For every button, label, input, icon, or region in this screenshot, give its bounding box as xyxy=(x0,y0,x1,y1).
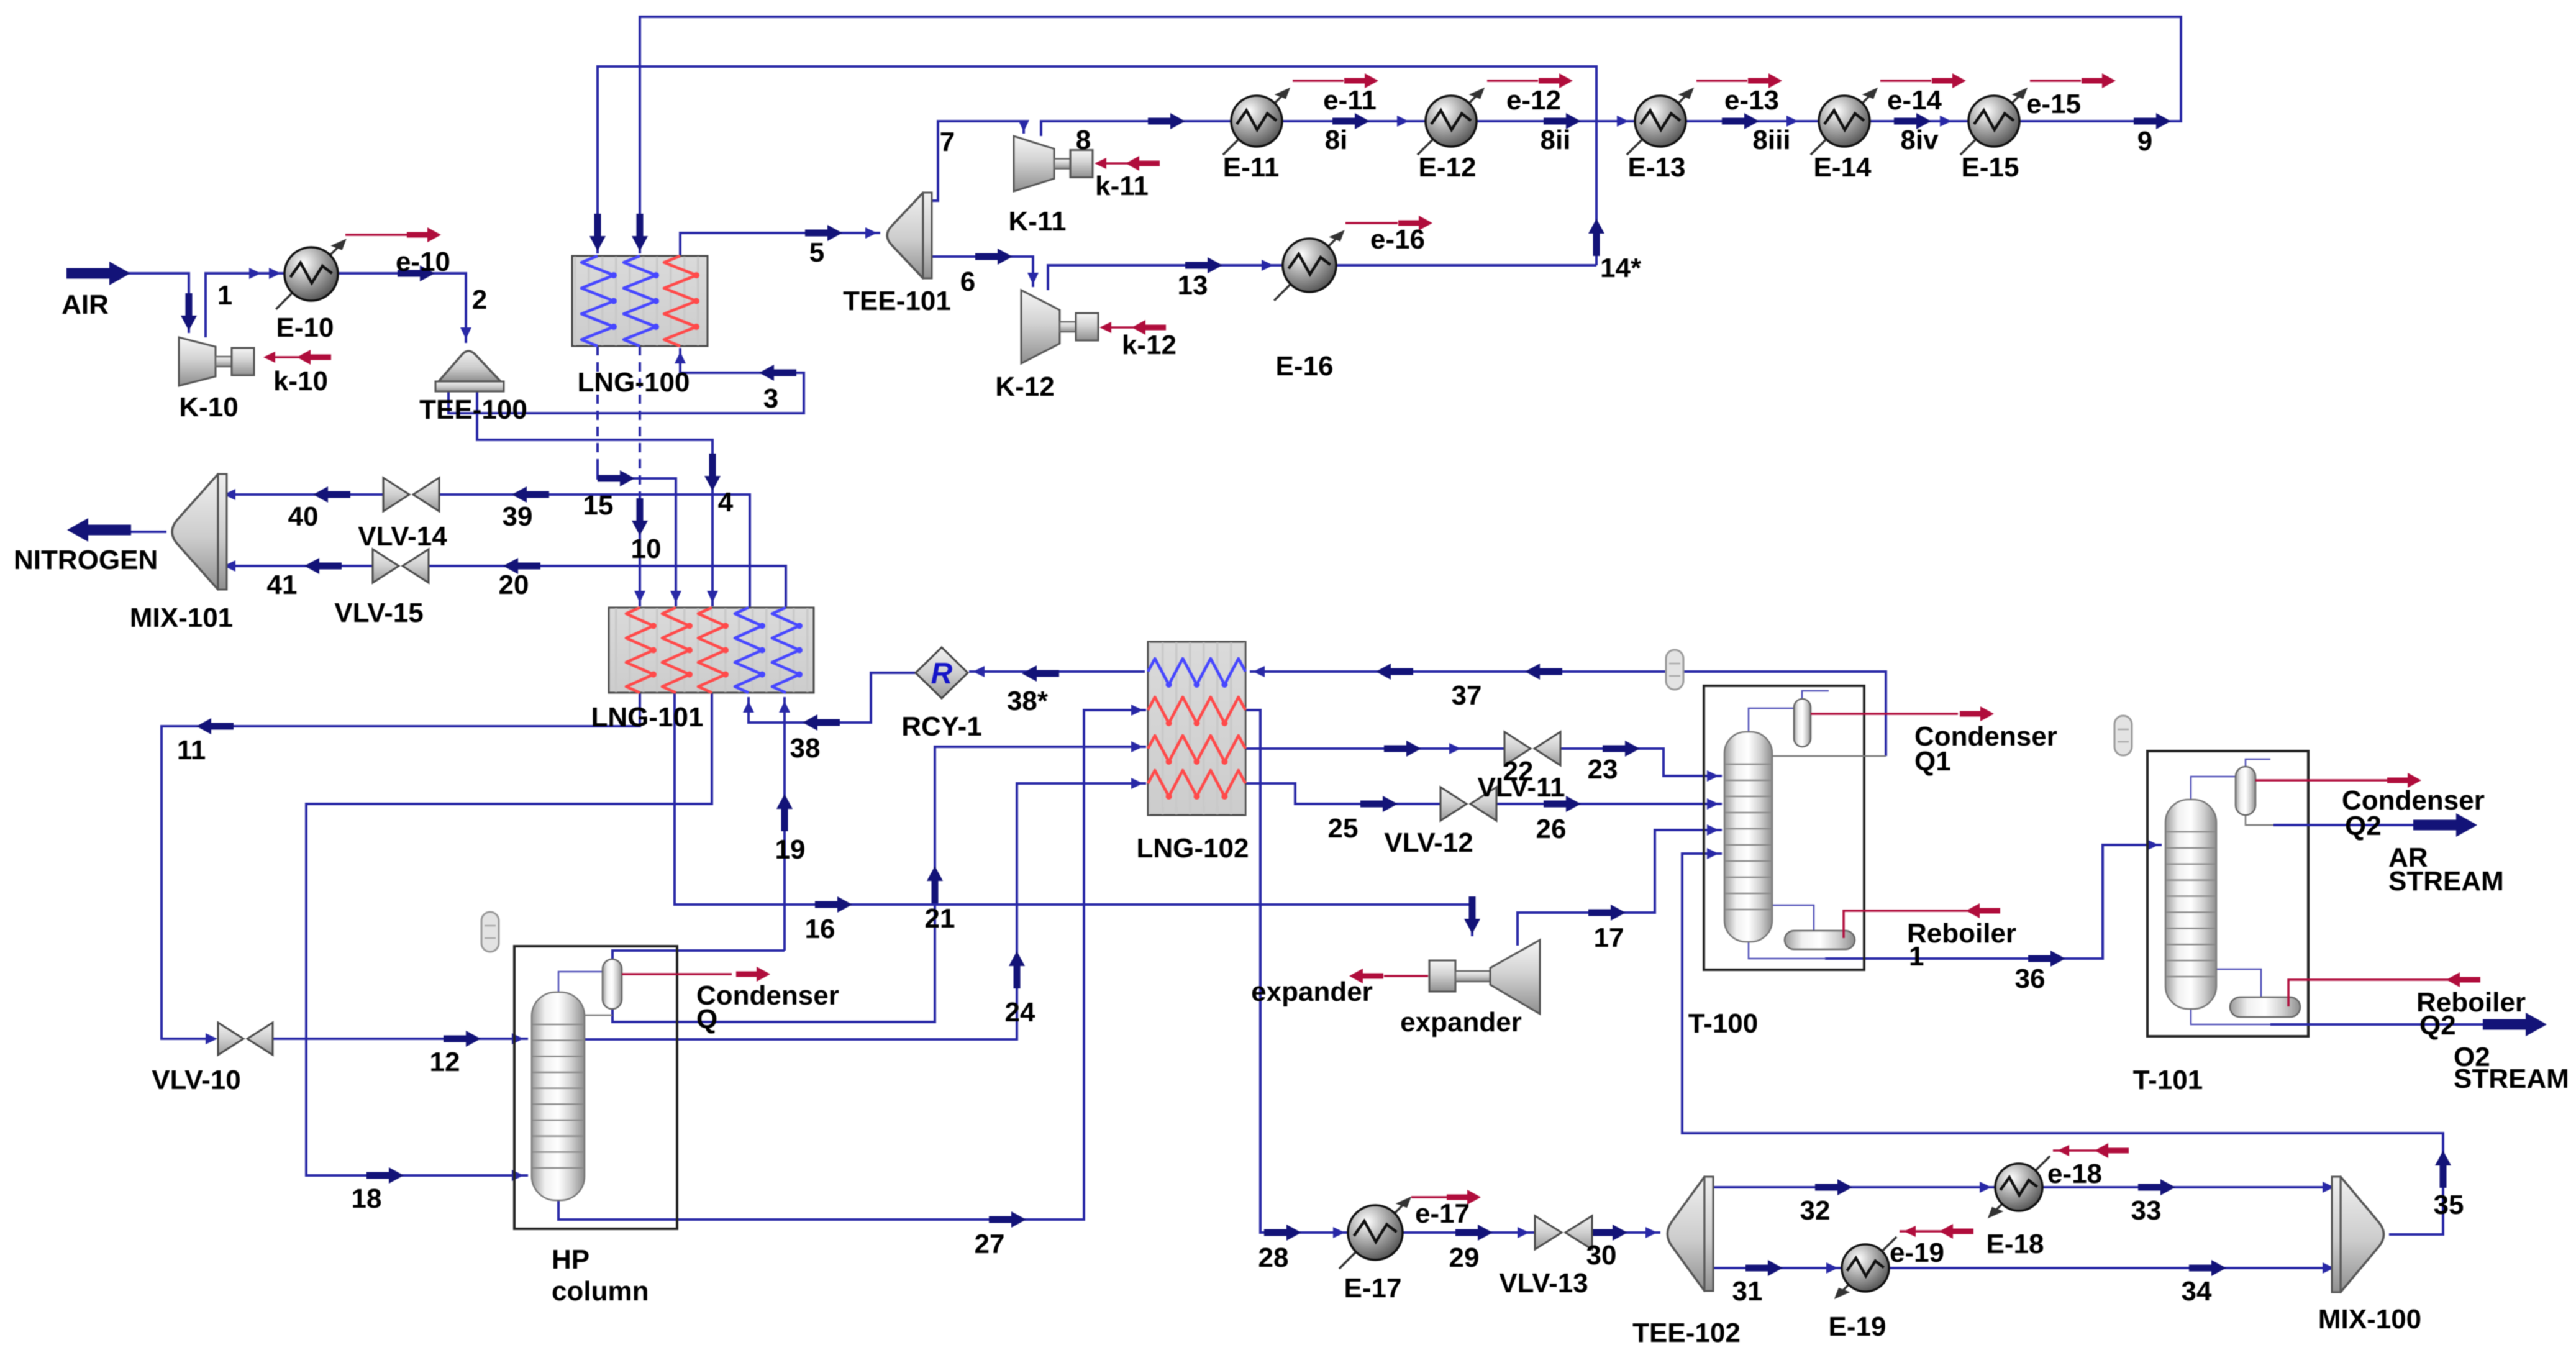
svg-text:28: 28 xyxy=(1258,1243,1289,1273)
heat exchanger E-17 xyxy=(1339,1192,1415,1269)
svg-text:VLV-10: VLV-10 xyxy=(152,1065,240,1095)
fat arrow stream 30 xyxy=(1590,1225,1627,1241)
svg-text:1: 1 xyxy=(217,280,232,311)
svg-text:expander: expander xyxy=(1400,1007,1522,1038)
wire stream 13 K-12 to E-16 xyxy=(1048,265,1283,290)
svg-text:Q2: Q2 xyxy=(2419,1010,2456,1041)
fat arrow stream 5 xyxy=(805,225,842,241)
svg-text:6: 6 xyxy=(960,267,975,297)
svg-text:21: 21 xyxy=(925,903,955,934)
valve VLV-12 xyxy=(1440,787,1496,821)
fat arrow stream 2 xyxy=(398,265,435,281)
wire stream 12 VLV-10 to HP column xyxy=(273,1038,528,1040)
wire HP condenser inlet xyxy=(558,972,612,992)
svg-text:Condenser: Condenser xyxy=(696,980,839,1011)
svg-text:8iv: 8iv xyxy=(1900,125,1939,155)
svg-text:e-19: e-19 xyxy=(1890,1238,1944,1268)
energy stream e-15 xyxy=(2030,80,2081,82)
tee TEE-100 xyxy=(439,351,501,381)
svg-text:TEE-101: TEE-101 xyxy=(843,286,951,316)
arrow into K-11 xyxy=(1018,120,1029,132)
T-100 condenser drum xyxy=(1794,699,1811,747)
svg-text:MIX-101: MIX-101 xyxy=(130,603,233,633)
valve VLV-10 xyxy=(218,1023,273,1055)
energy stream e-11 xyxy=(1293,80,1344,82)
svg-text:e-13: e-13 xyxy=(1724,85,1779,116)
wire streams 8i-8iv exchanger chain xyxy=(1282,120,1968,122)
compressor compressor K-12 xyxy=(1021,290,1060,363)
svg-text:LNG-101: LNG-101 xyxy=(591,702,704,732)
wire stream 9 E-15 back to LNG-100 xyxy=(640,17,2181,253)
fat arrow 8iii xyxy=(1722,113,1759,129)
fat arrow stream 40 xyxy=(313,486,350,503)
svg-text:VLV-11: VLV-11 xyxy=(1477,772,1565,803)
svg-text:14*: 14* xyxy=(1600,253,1642,283)
svg-text:Q: Q xyxy=(696,1004,717,1034)
wire stream 28 LNG-102 to E-17 xyxy=(1245,710,1349,1233)
fat arrow stream 32 xyxy=(1815,1179,1852,1195)
arrow stream 10 into LNG-101 xyxy=(634,591,645,603)
svg-text:E-11: E-11 xyxy=(1223,152,1280,183)
svg-text:e-16: e-16 xyxy=(1370,224,1425,255)
fat arrow stream 10 xyxy=(632,498,648,536)
fat arrow stream 19 xyxy=(776,794,793,831)
wire stream 10 to LNG-101 xyxy=(639,492,641,606)
energy stream e-13 xyxy=(1696,80,1747,82)
svg-text:39: 39 xyxy=(503,501,533,532)
column T-100 vessel xyxy=(1724,732,1772,942)
wire T-101 condenser inlet xyxy=(2191,777,2246,800)
wire stream 14* back to LNG-100 xyxy=(598,66,1596,265)
svg-text:E-14: E-14 xyxy=(1814,152,1872,183)
svg-text:T-101: T-101 xyxy=(2133,1065,2203,1095)
fat arrow stream 36 xyxy=(2028,951,2065,967)
arrows stream 1 xyxy=(269,268,281,279)
fat arrow stream 14* xyxy=(1588,219,1604,256)
heat exchanger E-11 xyxy=(1223,83,1294,155)
fat arrow stream 38 xyxy=(803,714,840,731)
fat arrow stream 38* xyxy=(1022,665,1059,682)
svg-text:Q1: Q1 xyxy=(1914,746,1951,777)
compressor compressor K-11 xyxy=(1014,136,1054,191)
fat arrow stream 6 xyxy=(975,249,1013,265)
svg-text:8i: 8i xyxy=(1325,125,1348,155)
svg-text:34: 34 xyxy=(2182,1276,2212,1307)
wire stream 38* LNG-102 to RCY-1 xyxy=(969,670,1145,673)
heat exchanger E-14 xyxy=(1811,83,1882,155)
wire stream 21 HP condenser to LNG-102 xyxy=(612,747,1146,1022)
heat exchanger E-13 xyxy=(1627,83,1698,155)
heat exchanger E-10 xyxy=(276,234,350,309)
arrow into TEE-100 xyxy=(460,327,471,339)
fat arrow stream 28 xyxy=(1264,1225,1301,1241)
svg-text:e-14: e-14 xyxy=(1887,85,1942,116)
O2 STREAM outlet xyxy=(2270,1023,2490,1026)
fat arrow stream 31 xyxy=(1745,1260,1783,1276)
svg-text:35: 35 xyxy=(2434,1190,2464,1220)
compressor compressor K-10 xyxy=(179,337,216,386)
svg-text:8: 8 xyxy=(1076,125,1091,155)
T-101 sub-flowsheet box xyxy=(2147,751,2308,1036)
valve VLV-11 xyxy=(1504,732,1560,765)
svg-text:19: 19 xyxy=(775,834,806,865)
svg-text:5: 5 xyxy=(809,237,824,268)
tee TEE-101 xyxy=(887,193,923,278)
heat exchanger E-18 xyxy=(1984,1156,2050,1223)
valve VLV-15 xyxy=(373,549,429,583)
svg-text:AIR: AIR xyxy=(61,290,109,320)
fat arrow stream 9 xyxy=(2134,113,2171,129)
wire stream 32 TEE-102 to E-18 xyxy=(1712,1186,1996,1188)
svg-text:RCY-1: RCY-1 xyxy=(901,711,982,742)
svg-text:NITROGEN: NITROGEN xyxy=(14,545,158,575)
AIR inlet arrow xyxy=(66,262,130,285)
wire stream 2 E-10 to TEE-100 xyxy=(338,273,466,343)
wire stream 15 dashed from LNG-100 xyxy=(596,346,599,460)
svg-text:K-10: K-10 xyxy=(179,392,238,422)
HP column sub-flowsheet box xyxy=(514,946,677,1229)
energy stream Condenser Q (HP) xyxy=(622,973,732,975)
arrow into K-12 xyxy=(1027,273,1039,285)
svg-text:e-10: e-10 xyxy=(396,247,450,277)
svg-text:33: 33 xyxy=(2131,1195,2162,1226)
HP condenser drum xyxy=(603,959,622,1009)
svg-text:20: 20 xyxy=(499,570,529,600)
wire stream 30 VLV-13 to TEE-102 xyxy=(1592,1231,1660,1234)
fat arrow stream 22 xyxy=(1384,741,1421,757)
mixer MIX-101 xyxy=(172,474,218,590)
fat arrow stream 39 xyxy=(512,486,549,503)
fat arrow stream 16 xyxy=(815,896,852,913)
energy stream k-12 xyxy=(1102,326,1157,329)
svg-text:K-12: K-12 xyxy=(995,372,1054,402)
svg-text:LNG-100: LNG-100 xyxy=(578,367,690,398)
svg-text:TEE-102: TEE-102 xyxy=(1632,1318,1741,1348)
energy stream e-19 xyxy=(1900,1230,1968,1233)
svg-text:10: 10 xyxy=(631,534,662,564)
column T-100 sub-flowsheet box xyxy=(1704,686,1864,970)
wire AIR to K-10 xyxy=(129,273,189,333)
fat arrow stream 3 xyxy=(759,365,796,381)
energy stream e-12 xyxy=(1487,80,1538,82)
arrow into expander xyxy=(1464,896,1480,934)
svg-text:T-100: T-100 xyxy=(1688,1008,1759,1039)
wire T-101 reboiler vapour xyxy=(2216,969,2261,998)
svg-text:HP: HP xyxy=(552,1244,589,1275)
fat arrow stream 17 xyxy=(1588,905,1626,921)
svg-text:1: 1 xyxy=(1909,941,1924,972)
valve VLV-14 xyxy=(383,478,439,511)
fat arrow stream 29 xyxy=(1455,1225,1493,1241)
wire T-101 reboiler liquid xyxy=(2191,1009,2273,1024)
svg-text:LNG-102: LNG-102 xyxy=(1137,833,1249,864)
wire to NITROGEN outlet xyxy=(124,531,166,533)
wire stream 5 LNG-100 to TEE-101 xyxy=(680,233,880,256)
wire T-100 condenser outlet xyxy=(1772,755,1886,757)
T-101 condenser drum xyxy=(2236,767,2255,815)
wire stream 24 HP column to LNG-102 xyxy=(585,783,1146,1039)
wire stream 1 K-10 to E-10 xyxy=(206,273,286,337)
fat arrow stream 8 xyxy=(1148,113,1185,129)
wire stream 33 E-18 to MIX-100 xyxy=(2041,1186,2338,1188)
svg-text:8iii: 8iii xyxy=(1752,125,1790,155)
AR STREAM outlet xyxy=(2273,824,2426,826)
wire T-100 condenser inlet xyxy=(1749,708,1802,732)
svg-text:E-12: E-12 xyxy=(1419,152,1477,183)
energy stream Condenser Q1 xyxy=(1811,713,1958,715)
energy stream k-11 xyxy=(1097,162,1150,165)
svg-text:expander: expander xyxy=(1251,977,1373,1007)
energy stream Condenser Q2 xyxy=(2255,779,2387,782)
energy stream e-10 xyxy=(345,234,410,236)
svg-text:e-12: e-12 xyxy=(1506,85,1561,116)
svg-text:24: 24 xyxy=(1005,997,1035,1028)
svg-text:2: 2 xyxy=(472,285,487,315)
fat arrow 8ii xyxy=(1544,113,1581,129)
fat arrow stream 20 xyxy=(503,558,540,574)
svg-text:30: 30 xyxy=(1586,1240,1617,1270)
svg-text:VLV-14: VLV-14 xyxy=(358,521,447,552)
arrow into K-10 xyxy=(181,293,197,331)
svg-text:27: 27 xyxy=(975,1229,1005,1259)
valve VLV-13 xyxy=(1535,1216,1592,1249)
svg-text:36: 36 xyxy=(2015,964,2046,994)
wire stream 35 MIX-100 to T-100 xyxy=(1682,854,2443,1234)
fat arrow stream 34 xyxy=(2189,1260,2226,1276)
wire HP condenser vapour line xyxy=(612,951,785,959)
fat arrow stream 33 xyxy=(2138,1179,2175,1195)
wire stream 18 LNG-101 to HP column xyxy=(306,693,712,1175)
energy stream e-14 xyxy=(1880,80,1931,82)
fat arrow stream 4 xyxy=(704,454,721,491)
svg-text:23: 23 xyxy=(1588,754,1618,785)
svg-text:E-16: E-16 xyxy=(1276,351,1334,381)
svg-text:15: 15 xyxy=(583,490,614,521)
fat arrow stream 12 xyxy=(444,1031,481,1047)
column T-101 vessel xyxy=(2165,800,2216,1009)
wire stream 10 dashed from LNG-100 xyxy=(639,346,641,492)
wire stream 3 TEE-100 to LNG-100 xyxy=(448,348,804,413)
wire stream 4 TEE-100 to LNG-101 xyxy=(477,390,712,606)
energy stream k-10 xyxy=(267,356,328,358)
fat arrow stream 11 xyxy=(196,718,234,734)
arrow into HP column xyxy=(512,1033,524,1044)
wire stream 37 T-100 to LNG-102 xyxy=(1250,672,1886,756)
svg-text:32: 32 xyxy=(1800,1195,1831,1226)
wire stream 19 HP condenser to LNG-101 xyxy=(783,697,786,951)
svg-text:e-17: e-17 xyxy=(1415,1198,1470,1229)
wire stream 39 LNG-101 to VLV-14 xyxy=(440,495,750,608)
svg-text:Q2: Q2 xyxy=(2345,811,2382,841)
wire stream 40 VLV-14 to MIX-101 xyxy=(221,493,383,496)
heat exchanger E-19 xyxy=(1831,1237,1896,1303)
capsule flag on stream 37 xyxy=(1666,650,1683,690)
wire stream 41 VLV-15 to MIX-101 xyxy=(221,565,372,567)
energy stream Reboiler Q2 xyxy=(2288,980,2477,1006)
svg-text:13: 13 xyxy=(1178,270,1208,301)
svg-text:9: 9 xyxy=(2137,126,2152,157)
heat exchanger E-16 xyxy=(1274,226,1348,301)
svg-text:7: 7 xyxy=(940,127,955,157)
recycle RCY-1 xyxy=(916,647,968,698)
T-101 reboiler drum xyxy=(2230,997,2300,1017)
svg-text:e-11: e-11 xyxy=(1323,85,1377,116)
wire stream 15 to LNG-101 xyxy=(598,460,676,606)
heat exchanger E-15 xyxy=(1960,83,2031,155)
svg-text:12: 12 xyxy=(430,1047,460,1077)
wire HP condenser reflux xyxy=(585,1015,612,1016)
energy stream Reboiler 1 xyxy=(1844,911,1972,938)
wire stream 11 LNG-101 to VLV-10 xyxy=(162,693,640,1039)
svg-text:11: 11 xyxy=(177,735,206,765)
mixer MIX-100 xyxy=(2341,1177,2383,1292)
wire stream 26 VLV-12 to T-100 xyxy=(1496,803,1722,805)
svg-text:k-11: k-11 xyxy=(1095,171,1149,201)
wire stream 23 VLV-11 to T-100 xyxy=(1560,749,1722,776)
svg-text:R: R xyxy=(931,657,953,690)
expander xyxy=(1429,960,1455,992)
wire stream 7 TEE-101 to K-11 xyxy=(927,121,1024,201)
NITROGEN outlet arrow xyxy=(67,518,131,542)
wire stream 14 E-16 outlet xyxy=(1336,264,1596,267)
svg-text:VLV-12: VLV-12 xyxy=(1384,828,1473,858)
wire stream 27 HP column to LNG-102 xyxy=(558,710,1146,1220)
svg-text:25: 25 xyxy=(1328,813,1359,844)
arrow into VLV-10 xyxy=(206,1033,217,1044)
wire stream 34 E-19 to MIX-100 xyxy=(1888,1267,2338,1269)
svg-text:37: 37 xyxy=(1452,680,1482,711)
wire stream 36 T-100 to T-101 xyxy=(1825,845,2162,959)
svg-text:E-10: E-10 xyxy=(276,312,334,343)
svg-text:k-12: k-12 xyxy=(1122,330,1176,360)
fat arrow stream 26 xyxy=(1544,796,1581,812)
energy stream e-16 xyxy=(1345,222,1398,224)
wire stream 16 LNG-101 to expander xyxy=(675,693,1472,936)
capsule flag near T-101 xyxy=(2114,716,2132,755)
wire stream 29 E-17 to VLV-13 xyxy=(1401,1231,1535,1234)
svg-text:31: 31 xyxy=(1732,1276,1763,1307)
svg-text:E-19: E-19 xyxy=(1829,1311,1886,1342)
fat arrow stream 15 xyxy=(598,470,635,486)
svg-text:MIX-100: MIX-100 xyxy=(2318,1304,2421,1334)
fat arrow stream 24 xyxy=(1009,951,1025,988)
fat arrow stream 35 xyxy=(2435,1151,2451,1188)
arrow stream 15 into LNG-101 xyxy=(670,591,681,603)
wire stream 6 TEE-101 to K-12 xyxy=(927,257,1033,287)
wire T-101 condenser stub xyxy=(2246,759,2270,767)
energy stream expander duty xyxy=(1384,975,1428,977)
svg-text:STREAM: STREAM xyxy=(2388,866,2504,896)
fat arrow stream 13 xyxy=(1185,257,1222,273)
svg-text:E-18: E-18 xyxy=(1987,1229,2044,1259)
svg-text:38: 38 xyxy=(790,733,821,764)
svg-text:column: column xyxy=(552,1276,649,1307)
svg-text:18: 18 xyxy=(352,1184,382,1214)
svg-text:41: 41 xyxy=(267,570,298,600)
svg-text:STREAM: STREAM xyxy=(2454,1064,2569,1094)
svg-text:E-17: E-17 xyxy=(1344,1273,1402,1303)
wire stream 22 LNG-102 to VLV-11 xyxy=(1245,747,1504,750)
energy stream e-18 xyxy=(2053,1149,2123,1152)
wire T-100 condenser stub xyxy=(1802,691,1829,699)
svg-text:E-13: E-13 xyxy=(1628,152,1686,183)
svg-text:3: 3 xyxy=(763,383,778,414)
heat exchanger E-12 xyxy=(1418,83,1488,155)
fat arrow 8iv xyxy=(1894,113,1931,129)
svg-text:E-15: E-15 xyxy=(1962,152,2019,183)
svg-text:k-10: k-10 xyxy=(273,366,328,396)
fat arrow stream 41 xyxy=(304,558,342,574)
tee TEE-102 xyxy=(1667,1177,1704,1291)
svg-text:8ii: 8ii xyxy=(1541,125,1571,155)
svg-text:40: 40 xyxy=(288,501,319,532)
wire stream 8 K-11 to E-11 xyxy=(1041,121,1231,136)
svg-text:4: 4 xyxy=(718,487,734,518)
fat arrow stream 27 xyxy=(989,1211,1026,1228)
fat arrow stream 37 xyxy=(1376,664,1413,680)
wire stream 25 LNG-102 to VLV-12 xyxy=(1245,783,1440,804)
wire stream 31 TEE-102 to E-19 xyxy=(1712,1267,1843,1269)
fat arrow stream 23 xyxy=(1603,741,1640,757)
wire T-101 condenser outlet xyxy=(2246,815,2276,825)
svg-text:VLV-13: VLV-13 xyxy=(1499,1268,1588,1298)
arrow stream 4 into LNG-101 xyxy=(707,591,718,603)
wire stream 38 RCY-1 to LNG-101 xyxy=(749,673,917,723)
svg-text:e-15: e-15 xyxy=(2026,89,2081,119)
wire T-100 reboiler vapour xyxy=(1772,905,1814,932)
LNG-101 heat exchanger xyxy=(609,608,814,693)
svg-text:e-18: e-18 xyxy=(2047,1159,2102,1189)
T-100 reboiler drum xyxy=(1785,931,1855,949)
arrow stream 3 into LNG-100 xyxy=(675,352,686,363)
fat arrow stream 14* into LNG-100 xyxy=(589,214,606,251)
svg-text:17: 17 xyxy=(1594,923,1624,953)
svg-text:26: 26 xyxy=(1536,814,1567,844)
energy stream e-17 xyxy=(1411,1196,1447,1198)
fat arrow stream 21 xyxy=(927,866,943,903)
wire T-100 reboiler liquid xyxy=(1749,942,1826,959)
capsule flag near HP column xyxy=(481,912,499,952)
LNG-100 heat exchanger xyxy=(572,256,708,346)
svg-text:K-11: K-11 xyxy=(1009,206,1067,237)
fat arrow stream 9 into LNG-100 xyxy=(632,214,648,251)
svg-text:38*: 38* xyxy=(1007,686,1049,716)
svg-text:16: 16 xyxy=(805,914,835,944)
wire stream 17 expander to T-100 xyxy=(1518,830,1722,946)
fat arrow stream 25 xyxy=(1360,796,1398,812)
wire stream 20 LNG-101 to VLV-15 xyxy=(429,566,786,608)
column HP vessel xyxy=(532,992,585,1200)
fat arrow stream 18 xyxy=(366,1167,404,1184)
LNG-102 heat exchanger xyxy=(1148,642,1245,815)
svg-text:29: 29 xyxy=(1449,1243,1480,1273)
svg-text:TEE-100: TEE-100 xyxy=(419,395,527,425)
svg-text:VLV-15: VLV-15 xyxy=(334,598,423,628)
fat arrow 8i xyxy=(1332,113,1370,129)
